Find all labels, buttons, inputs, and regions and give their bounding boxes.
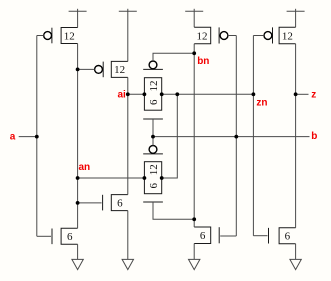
wire: net a vertical	[36, 36, 38, 237]
junction: TG2 output on zn row	[175, 92, 179, 96]
wire: TG1 nmos gate to b row	[152, 119, 154, 137]
vdd rail symbol T2	[119, 9, 137, 62]
nmos transistor N2 (an inverter pull-down)	[103, 195, 128, 211]
wire: net b gate vertical	[235, 36, 237, 237]
wire: net an row	[78, 177, 145, 179]
wire: net z vertical	[295, 44, 297, 228]
svg-text:an: an	[79, 162, 91, 173]
vdd rail symbol T3	[185, 9, 203, 27]
svg-text:12: 12	[148, 81, 160, 92]
wire: P2 gate to net an	[78, 68, 95, 70]
pmos transistor P4 (zn inverter pull-up)	[264, 27, 296, 44]
wire: N2 gate to net an	[78, 202, 102, 204]
junction: a tap	[35, 135, 39, 139]
svg-text:bn: bn	[197, 56, 209, 67]
svg-text:z: z	[311, 90, 316, 101]
svg-text:zn: zn	[256, 98, 267, 109]
svg-text:6: 6	[117, 197, 123, 209]
transmission gate TG1 (ai to zn)	[143, 61, 163, 119]
svg-text:12: 12	[197, 30, 208, 42]
svg-text:12: 12	[64, 30, 75, 42]
nmos transistor N4 (zn inverter pull-down)	[269, 228, 296, 244]
wire: P4 gate to net zn	[253, 35, 264, 37]
wire: TG1 pmos gate to bn	[153, 53, 194, 61]
ground symbol G2	[122, 211, 133, 270]
transmission gate TG2 (an to zn)	[143, 146, 163, 203]
junction: z node	[294, 92, 298, 96]
junction: N2 gate on an	[76, 201, 80, 205]
wire: P1 gate to net a	[37, 35, 44, 37]
junction: bn to TG1 pmos gate	[192, 51, 196, 55]
wire: net ai vertical	[127, 77, 129, 194]
svg-text:6: 6	[285, 231, 291, 243]
svg-text:6: 6	[148, 99, 160, 105]
wire: net an vertical	[77, 44, 79, 229]
vdd rail symbol T1	[69, 9, 87, 28]
wire: ai row segment	[128, 93, 145, 95]
wire: net b row	[153, 136, 310, 138]
ground symbol G1	[72, 244, 83, 269]
wire: TG2 nmos gate to bn	[153, 202, 194, 219]
svg-text:12: 12	[114, 64, 125, 76]
wire: z output stub	[296, 93, 309, 95]
junction: bn to TG2 nmos gate	[192, 217, 196, 221]
nmos transistor N3 (b inverter pull-down)	[194, 227, 219, 244]
wire: P3 gate to net b vertical	[228, 35, 236, 37]
vdd rail symbol T4	[287, 9, 305, 27]
pmos transistor P1 (a inverter pull-up)	[44, 28, 78, 44]
junction: zn node	[252, 92, 256, 96]
wire: N4 gate to net zn	[253, 235, 267, 237]
svg-text:12: 12	[148, 164, 160, 175]
junction: TG1 right terminal	[160, 92, 164, 96]
ground symbol G3	[189, 244, 200, 270]
wire: net bn vertical	[193, 44, 195, 227]
wire: TG2 output jog to zn row	[162, 94, 178, 178]
junction: ai node	[126, 92, 130, 96]
svg-text:6: 6	[148, 182, 160, 188]
svg-text:ai: ai	[117, 90, 126, 101]
wire: a input stub	[19, 136, 37, 138]
pmos transistor P3 (b inverter pull-up)	[194, 27, 228, 44]
svg-text:b: b	[311, 131, 317, 142]
junction: P2 gate on an	[76, 68, 80, 72]
svg-text:12: 12	[282, 30, 293, 42]
ground symbol G4	[290, 244, 301, 270]
junction: TG gates on b row	[151, 135, 155, 139]
junction: TG1 left terminal	[143, 92, 147, 96]
junction: TG2 right terminal	[160, 176, 164, 180]
nmos transistor N1 (a inverter pull-down)	[52, 228, 78, 244]
junction: b gate vertical on b row	[234, 135, 238, 139]
svg-text:6: 6	[67, 231, 73, 243]
wire: zn row segment	[162, 93, 254, 95]
pmos transistor P2 (an inverter pull-up)	[95, 61, 128, 77]
wire: N3 gate to net b vertical	[220, 235, 236, 237]
junction: TG2 left terminal	[143, 176, 147, 180]
wire: net zn vertical	[252, 36, 254, 236]
wire: TG2 pmos gate to b row	[152, 137, 154, 146]
svg-text:6: 6	[200, 230, 206, 242]
wire: N1 gate to net a	[37, 235, 51, 237]
svg-text:a: a	[10, 131, 16, 142]
junction: an row on an vertical	[76, 176, 80, 180]
